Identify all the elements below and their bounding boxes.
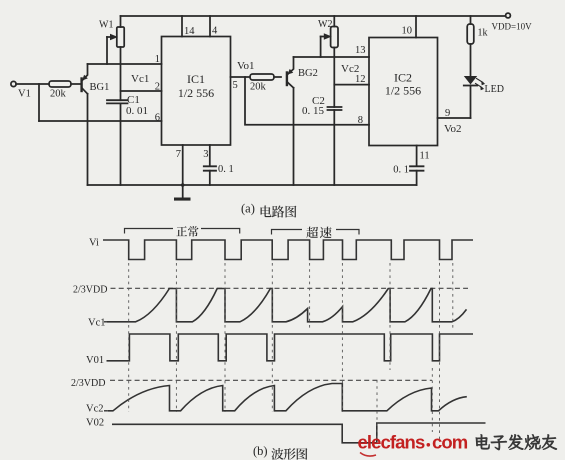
wire pin7 + ground <box>182 145 184 198</box>
svg-text:VDD=10V: VDD=10V <box>492 22 533 32</box>
wire pin5 branch down to pin8 <box>245 77 369 125</box>
transistor BG1 <box>80 79 82 92</box>
label stub Vc1 <box>104 321 107 323</box>
svg-text:elecfans: elecfans <box>358 432 425 453</box>
label stub Vi <box>103 239 104 241</box>
svg-text:(b): (b) <box>253 444 268 458</box>
wire pin6 IC1 <box>39 120 162 122</box>
svg-text:11: 11 <box>420 151 430 162</box>
svg-text:1k: 1k <box>478 28 488 39</box>
wire node A down <box>38 84 40 121</box>
svg-text:0. 1: 0. 1 <box>218 164 234 175</box>
BG1 collector wire down <box>87 94 89 185</box>
svg-text:13: 13 <box>355 45 366 56</box>
bottom rail <box>88 184 417 186</box>
wire input to resistor <box>16 83 49 85</box>
svg-text:2/3VDD: 2/3VDD <box>73 285 107 296</box>
IC1 1/2 556 <box>162 37 231 146</box>
waveform Vc1 <box>107 289 467 322</box>
svg-text:W2: W2 <box>318 19 332 30</box>
capacitor C1 <box>107 100 128 103</box>
svg-text:20k: 20k <box>250 82 267 93</box>
svg-text:2/3VDD: 2/3VDD <box>71 378 105 389</box>
svg-text:BG1: BG1 <box>90 82 110 93</box>
svg-text:2: 2 <box>155 82 160 93</box>
dashed threshold 2/3VDD (Vc2) <box>110 379 432 381</box>
svg-text:3: 3 <box>203 149 208 160</box>
waveform Vi <box>104 240 473 260</box>
wire pin3 + capacitor 0.1 (IC1) <box>209 145 211 166</box>
svg-text:7: 7 <box>176 149 181 160</box>
svg-text:V1: V1 <box>18 89 31 100</box>
svg-text:W1: W1 <box>99 20 113 31</box>
svg-text:Vc1: Vc1 <box>131 73 149 85</box>
svg-text:8: 8 <box>358 115 363 126</box>
BG2 collector wire down <box>293 88 295 185</box>
top VDD rail <box>121 15 506 17</box>
svg-text:1/2 556: 1/2 556 <box>178 86 214 100</box>
brace overspeed (chao su) <box>272 230 360 235</box>
svg-text:V02: V02 <box>86 418 104 429</box>
svg-text:0. 15: 0. 15 <box>302 105 325 117</box>
wire pin1 IC1 <box>88 63 162 65</box>
logo text dianzifashaoyou <box>476 434 490 449</box>
input terminal Vi <box>11 81 16 86</box>
wire resistor to BG1 base <box>71 83 81 85</box>
dashed threshold 2/3VDD (Vc1) <box>111 287 469 289</box>
svg-text:9: 9 <box>445 108 450 119</box>
svg-text:0. 1: 0. 1 <box>393 165 409 176</box>
svg-text:BG2: BG2 <box>298 68 318 79</box>
wire pin14 <box>181 16 183 37</box>
svg-text:0. 01: 0. 01 <box>126 105 148 117</box>
svg-text:12: 12 <box>355 74 366 85</box>
potentiometer W2 <box>333 16 335 27</box>
svg-text:LED: LED <box>485 84 504 95</box>
svg-text:5: 5 <box>233 80 238 91</box>
label stub Vc2 <box>104 410 108 412</box>
wire pin5 Vo1 <box>231 76 251 78</box>
capacitor C2 <box>328 107 342 110</box>
svg-text:14: 14 <box>184 26 195 37</box>
svg-text:Vi: Vi <box>89 238 99 249</box>
wire pin9 Vo2 <box>438 117 471 119</box>
resistor 1k <box>470 16 472 24</box>
wire pin4 <box>209 16 211 37</box>
svg-text:(a): (a) <box>241 202 255 216</box>
wire pin11 + capacitor 0.1 (IC2) <box>416 146 418 167</box>
svg-text:6: 6 <box>155 113 160 124</box>
waveform Vc2 <box>108 384 467 411</box>
svg-text:V01: V01 <box>86 355 104 366</box>
VDD terminal <box>506 13 511 18</box>
waveform VO2 <box>112 423 486 443</box>
svg-text:Vo1: Vo1 <box>237 60 255 72</box>
potentiometer W1 <box>120 16 122 27</box>
ground <box>174 198 191 201</box>
svg-text:Vc2: Vc2 <box>86 404 104 415</box>
svg-text:IC1: IC1 <box>187 72 205 86</box>
wire pin2 IC1 <box>121 90 162 92</box>
svg-text:10: 10 <box>402 26 413 37</box>
dashed timing verticals <box>129 263 453 443</box>
svg-text:1: 1 <box>155 54 160 65</box>
wire pin10 <box>415 16 417 38</box>
svg-text:IC2: IC2 <box>394 71 412 85</box>
transistor BG2 <box>286 73 288 86</box>
wire pin13 <box>294 56 370 58</box>
resistor 20k (coupling) <box>250 74 274 80</box>
LED D1 <box>464 76 477 85</box>
brace normal (zheng chang) <box>125 229 240 234</box>
svg-text:Vc1: Vc1 <box>88 318 106 329</box>
svg-text:Vo2: Vo2 <box>444 123 462 135</box>
svg-text:4: 4 <box>212 26 218 37</box>
wire pin12 <box>334 84 369 86</box>
svg-text:com: com <box>432 432 468 453</box>
svg-text:1/2 556: 1/2 556 <box>385 84 421 98</box>
waveform VO1 <box>107 334 474 361</box>
resistor 20k (input) <box>49 81 71 87</box>
IC2 1/2 556 <box>369 38 438 146</box>
svg-text:20k: 20k <box>50 89 67 100</box>
